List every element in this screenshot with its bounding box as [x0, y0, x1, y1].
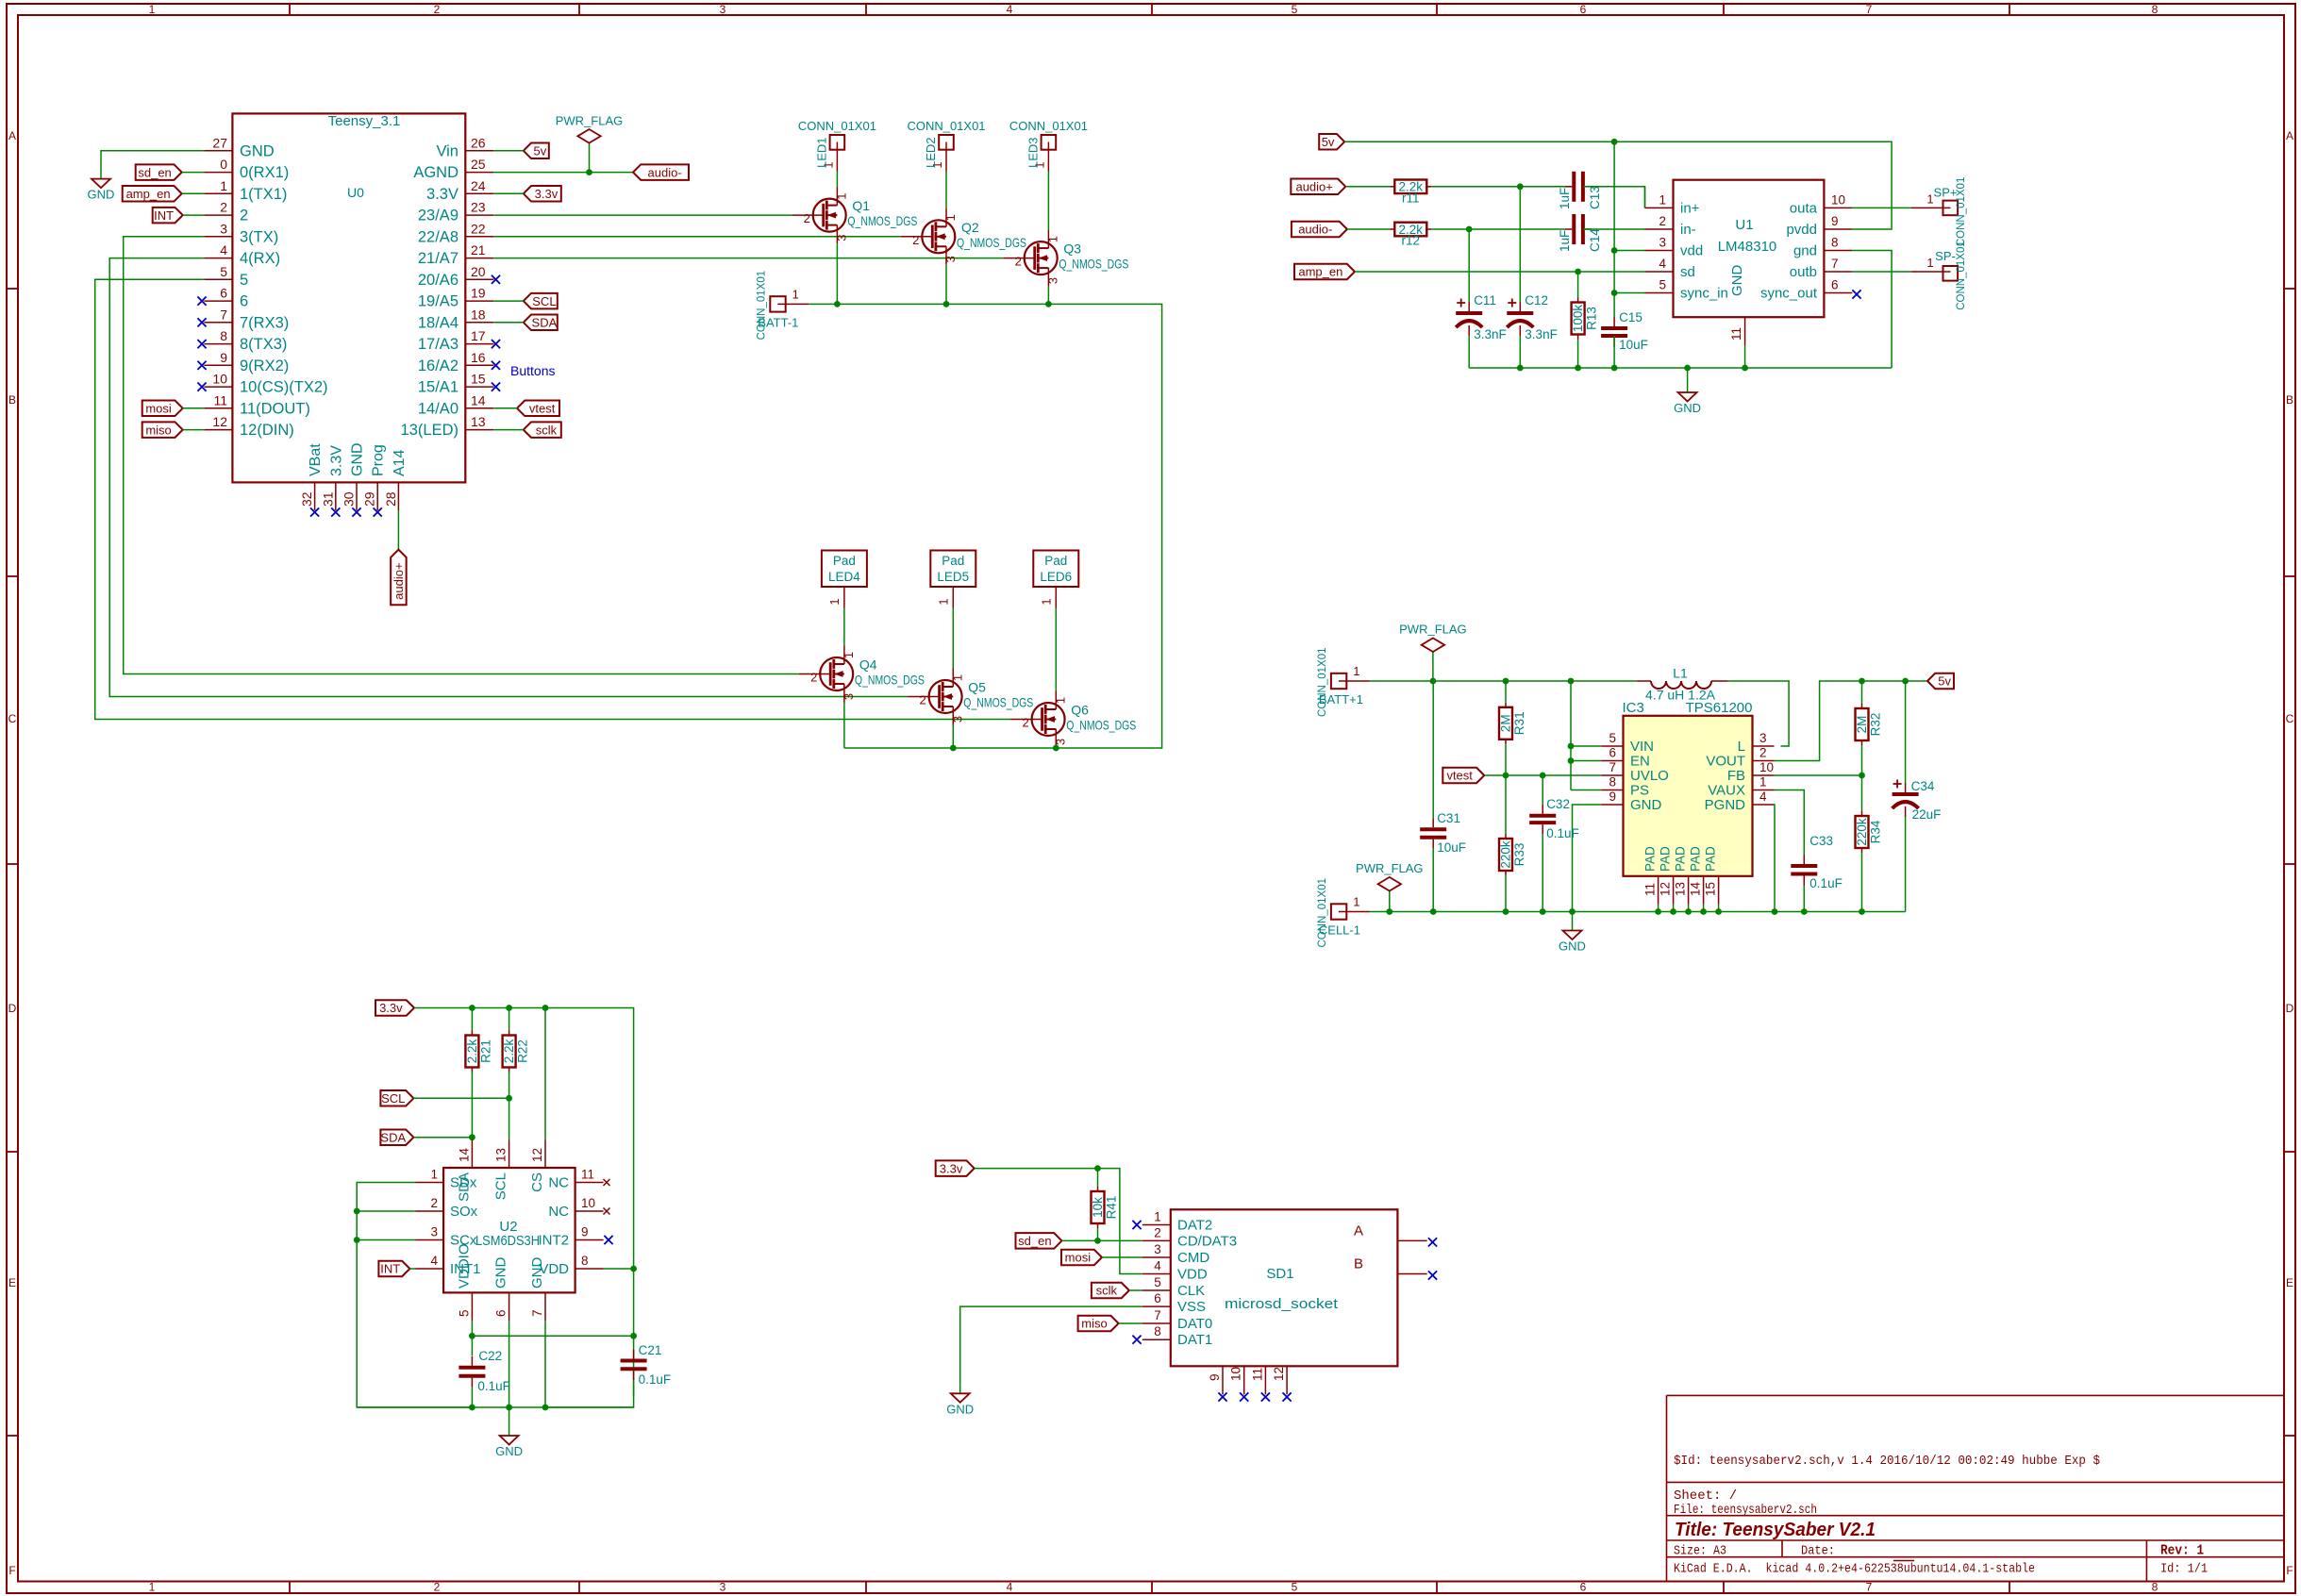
svg-text:audio+: audio+ — [1295, 179, 1332, 193]
svg-text:2: 2 — [804, 211, 810, 225]
svg-text:3: 3 — [430, 1225, 438, 1239]
wire GND from U0 pin 27 — [101, 151, 204, 179]
global label sclk (sd) — [1092, 1283, 1129, 1299]
svg-text:C33: C33 — [1809, 834, 1833, 848]
wire miso to U0 pin 12 — [183, 429, 205, 431]
svg-text:GND: GND — [529, 1257, 545, 1289]
wire U2 pin 3 — [357, 1239, 415, 1241]
svg-text:SOx: SOx — [450, 1204, 478, 1220]
svg-text:LM48310: LM48310 — [1718, 239, 1777, 255]
capacitor C12 3.3nF (polarized) — [1507, 293, 1558, 341]
junction R32 top — [1859, 678, 1865, 685]
svg-text:13: 13 — [471, 414, 486, 429]
svg-text:TPS61200: TPS61200 — [1686, 700, 1753, 716]
global label SCL (imu) — [380, 1090, 413, 1106]
svg-text:R41: R41 — [1105, 1196, 1119, 1220]
svg-text:5: 5 — [220, 264, 227, 279]
wire Q5 source to lower bus — [952, 725, 954, 749]
svg-text:2: 2 — [1659, 214, 1666, 228]
svg-text:8: 8 — [1831, 236, 1839, 250]
ground symbol GND — [1674, 368, 1701, 415]
wire audio- to r12 — [1347, 228, 1391, 230]
connector LED4 (Pad) — [822, 551, 867, 608]
capacitor C34 22uF (polarized) — [1892, 779, 1942, 822]
svg-text:5: 5 — [1292, 3, 1298, 16]
svg-text:12: 12 — [1659, 882, 1673, 896]
transistor Q6 Q_NMOS_DGS — [1010, 691, 1136, 748]
wire U2 pins 1-3 tie-down vertical — [357, 1183, 472, 1408]
svg-text:2: 2 — [434, 3, 441, 16]
svg-text:26: 26 — [471, 135, 486, 150]
svg-text:DAT1: DAT1 — [1177, 1332, 1212, 1348]
svg-text:25: 25 — [471, 157, 486, 172]
wire C34 to bus — [1905, 817, 1907, 912]
svg-text:Q_NMOS_DGS: Q_NMOS_DGS — [855, 673, 925, 688]
wire R13 to gnd bus — [1577, 340, 1579, 369]
svg-text:R21: R21 — [478, 1039, 492, 1063]
svg-text:sd: sd — [1680, 264, 1695, 280]
svg-text:3.3v: 3.3v — [940, 1161, 963, 1175]
svg-text:Pad: Pad — [942, 554, 964, 568]
svg-text:2: 2 — [240, 208, 248, 224]
svg-text:R13: R13 — [1585, 307, 1599, 330]
svg-text:2M: 2M — [1855, 716, 1869, 734]
svg-text:vtest: vtest — [529, 401, 556, 415]
svg-text:Size: A3: Size: A3 — [1674, 1544, 1726, 1559]
svg-text:GND: GND — [946, 1402, 974, 1416]
junction imu gnd bus — [506, 1405, 512, 1411]
power flag PWR_FLAG — [1356, 861, 1424, 911]
global label 5v — [524, 143, 549, 159]
svg-text:INT: INT — [154, 208, 174, 223]
svg-text:Q5: Q5 — [968, 680, 986, 695]
svg-text:12: 12 — [212, 414, 227, 429]
svg-text:1: 1 — [827, 598, 842, 605]
svg-text:sync_in: sync_in — [1680, 286, 1728, 302]
capacitor C22 0.1uF — [459, 1349, 510, 1393]
title block — [1667, 1395, 2285, 1581]
svg-text:C14: C14 — [1588, 228, 1602, 252]
svg-text:3.3v: 3.3v — [379, 1001, 403, 1015]
svg-text:SDA: SDA — [456, 1172, 472, 1202]
svg-text:SDA: SDA — [380, 1130, 406, 1144]
svg-text:3: 3 — [220, 221, 227, 236]
transistor Q1 Q_NMOS_DGS — [792, 187, 917, 243]
svg-text:8: 8 — [2152, 3, 2159, 16]
wire 5v down to C34 — [1905, 681, 1907, 783]
wire R34 to bus — [1861, 853, 1863, 912]
svg-text:20/A6: 20/A6 — [418, 272, 459, 289]
global label sclk — [524, 422, 561, 438]
wire U0 pin 19 to SCL — [493, 300, 524, 302]
resistor R31 2M — [1499, 703, 1527, 744]
svg-text:220k: 220k — [1499, 840, 1513, 869]
wire sync_in pin 5 — [1614, 292, 1644, 294]
svg-text:A: A — [2286, 129, 2293, 142]
svg-text:100k: 100k — [1571, 305, 1585, 333]
svg-text:0.1uF: 0.1uF — [1809, 876, 1842, 890]
svg-text:3: 3 — [1659, 236, 1666, 250]
svg-text:16: 16 — [471, 350, 486, 365]
svg-text:File: teensysaberv2.sch: File: teensysaberv2.sch — [1674, 1503, 1817, 1518]
svg-text:20: 20 — [471, 264, 486, 279]
wire sclk to CLK pin 5 — [1129, 1289, 1142, 1291]
svg-text:pvdd: pvdd — [1786, 222, 1817, 238]
wire U0 pin 4 to Q5 gate — [109, 258, 908, 697]
svg-text:B: B — [2286, 393, 2293, 407]
svg-text:0.1uF: 0.1uF — [639, 1372, 672, 1387]
svg-text:PWR_FLAG: PWR_FLAG — [1356, 861, 1424, 875]
svg-text:Rev: 1: Rev: 1 — [2160, 1544, 2204, 1559]
wire VIN/EN vertical — [1570, 681, 1572, 790]
svg-text:vdd: vdd — [1680, 243, 1703, 259]
wire U0 pin 28/A14 to audio+ — [397, 510, 399, 550]
junction Q3 source — [1045, 301, 1052, 308]
svg-text:LED5: LED5 — [937, 570, 969, 584]
svg-text:Q_NMOS_DGS: Q_NMOS_DGS — [957, 235, 1026, 250]
resistor R41 10k — [1091, 1187, 1119, 1228]
svg-text:amp_en: amp_en — [126, 187, 171, 201]
svg-text:LSM6DS3H: LSM6DS3H — [475, 1233, 540, 1249]
svg-text:18: 18 — [471, 307, 486, 322]
wire LED1 to Q1 drain — [836, 172, 838, 188]
svg-text:31: 31 — [320, 491, 335, 507]
junction Q2 source — [943, 301, 950, 308]
junction sd_en/R41 — [1094, 1238, 1101, 1244]
junction vdd — [1611, 247, 1618, 254]
svg-text:LED4: LED4 — [828, 570, 860, 584]
svg-text:3: 3 — [720, 3, 726, 16]
junction vtest/C32 — [1540, 773, 1546, 779]
global label audio- (amp) — [1292, 222, 1347, 238]
svg-text:3.3v: 3.3v — [535, 187, 559, 201]
svg-text:7: 7 — [1154, 1308, 1161, 1322]
inductor L1 4.7 uH 1.2A — [1637, 666, 1728, 703]
svg-text:C15: C15 — [1619, 310, 1642, 324]
svg-text:GND: GND — [88, 188, 115, 202]
svg-text:IC3: IC3 — [1623, 700, 1644, 716]
svg-text:B: B — [8, 393, 16, 407]
svg-text:C13: C13 — [1588, 186, 1602, 209]
resistor r11 2.2k — [1390, 180, 1431, 206]
wire C13 to in+ pin 1 — [1583, 187, 1645, 208]
svg-text:12(DIN): 12(DIN) — [240, 422, 294, 439]
svg-text:3.3V: 3.3V — [426, 186, 459, 203]
wire R33 to bottom bus — [1505, 875, 1507, 912]
resistor R32 2M — [1855, 704, 1883, 745]
svg-text:NC: NC — [548, 1175, 569, 1191]
svg-text:3(TX): 3(TX) — [240, 228, 278, 245]
wire U2 pin 2 — [357, 1210, 415, 1212]
svg-text:r12: r12 — [1402, 234, 1421, 248]
wire vtest down to R33 — [1505, 775, 1507, 834]
svg-text:BATT+1: BATT+1 — [1319, 692, 1363, 707]
transistor Q2 Q_NMOS_DGS — [901, 208, 1026, 265]
svg-text:6: 6 — [220, 286, 227, 301]
svg-text:10(CS)(TX2): 10(CS)(TX2) — [240, 379, 328, 396]
svg-text:Teensy_3.1: Teensy_3.1 — [328, 113, 401, 129]
svg-text:2: 2 — [912, 233, 919, 247]
svg-text:4: 4 — [1759, 790, 1767, 804]
svg-text:GND: GND — [1559, 939, 1586, 954]
svg-text:U1: U1 — [1735, 217, 1753, 233]
svg-text:LED6: LED6 — [1040, 570, 1072, 584]
wire BATT- bus (Q1/Q2/Q3 sources) — [809, 304, 1161, 748]
svg-text:outb: outb — [1790, 264, 1817, 280]
wire C33 to bus — [1803, 886, 1805, 912]
wire INT to U0 pin 2 — [183, 214, 205, 216]
junction 3.3v/CS — [542, 1005, 549, 1011]
svg-text:CS: CS — [529, 1172, 545, 1192]
junction bottom bus — [1540, 908, 1546, 915]
wire R32 top — [1861, 681, 1863, 704]
svg-text:Q4: Q4 — [859, 657, 877, 673]
wire U0 pin 13 to sclk — [493, 429, 524, 431]
svg-text:1: 1 — [1039, 598, 1053, 605]
svg-text:21/A7: 21/A7 — [418, 250, 459, 267]
svg-text:15/A1: 15/A1 — [418, 379, 459, 396]
svg-text:11: 11 — [213, 392, 227, 407]
svg-text:1: 1 — [1759, 775, 1767, 790]
wire U2 pin 8 VDD to 3.3v vertical — [604, 1268, 634, 1270]
svg-text:Sheet: /: Sheet: / — [1674, 1488, 1737, 1504]
no-connect U1 sync_out pin 6 — [1852, 290, 1860, 298]
svg-text:sclk: sclk — [1096, 1284, 1118, 1298]
ground symbol GND — [1559, 912, 1586, 954]
svg-text:8: 8 — [1154, 1324, 1161, 1338]
wire 3.3v rail — [414, 1008, 634, 1270]
wire U0 3.3V to 3.3v label — [493, 192, 524, 194]
svg-text:r11: r11 — [1402, 191, 1420, 205]
svg-text:2: 2 — [434, 1581, 441, 1594]
wire 3.3v to VDD net — [975, 1169, 1142, 1274]
junction bottom bus — [1859, 908, 1865, 915]
svg-text:1: 1 — [220, 178, 227, 193]
svg-text:5: 5 — [1609, 731, 1616, 745]
ground symbol GND — [495, 1407, 523, 1458]
junction 3.3v/R21 — [469, 1005, 475, 1011]
svg-text:Title: TeensySaber V2.1: Title: TeensySaber V2.1 — [1675, 1520, 1876, 1540]
svg-text:2: 2 — [1015, 255, 1022, 269]
svg-text:2: 2 — [919, 693, 925, 707]
connector SP+ CONN_01X01 — [1911, 177, 1967, 247]
wire R22 to SCL junction and pin 13 — [509, 1072, 510, 1140]
global label miso — [142, 422, 183, 438]
capacitor C33 0.1uF — [1791, 834, 1842, 890]
connector SP- CONN_01X01 — [1911, 241, 1967, 310]
wire VAUX pin 1 to C33 — [1775, 790, 1805, 856]
wire C31 to bottom bus — [1432, 849, 1434, 912]
svg-text:4: 4 — [1659, 257, 1666, 271]
svg-text:miso: miso — [1081, 1317, 1107, 1331]
svg-text:CONN_01X01: CONN_01X01 — [1956, 177, 1967, 247]
global label mosi — [142, 401, 183, 417]
svg-text:VDD: VDD — [1177, 1267, 1208, 1283]
svg-text:Vin: Vin — [436, 142, 459, 159]
wire R41 to sd_en net — [1097, 1228, 1099, 1240]
junction audio+ / C12 — [1517, 183, 1524, 190]
global label amp_en (amp) — [1294, 264, 1355, 280]
wire R31 bottom to vtest — [1505, 744, 1507, 775]
svg-text:R32: R32 — [1869, 713, 1883, 737]
capacitor C13 1uF — [1558, 172, 1602, 209]
svg-text:vtest: vtest — [1446, 769, 1473, 783]
wire amp_en to sd pin 4 — [1355, 271, 1645, 273]
svg-text:1: 1 — [430, 1168, 438, 1182]
svg-text:Q_NMOS_DGS: Q_NMOS_DGS — [1066, 718, 1136, 733]
svg-text:24: 24 — [471, 178, 486, 193]
svg-text:9(RX2): 9(RX2) — [240, 357, 289, 374]
svg-text:SCL: SCL — [532, 294, 556, 308]
svg-text:C: C — [2286, 712, 2294, 725]
svg-text:2: 2 — [1154, 1225, 1161, 1239]
svg-text:22: 22 — [471, 221, 486, 236]
wire U0 AGND to audio- — [493, 172, 633, 174]
wire SCL to R22 net — [413, 1097, 509, 1099]
svg-text:3: 3 — [1053, 739, 1067, 745]
svg-text:B: B — [1354, 1256, 1363, 1272]
svg-text:1(TX1): 1(TX1) — [240, 186, 287, 203]
connector LED5 (Pad) — [930, 551, 975, 608]
wire GND pin 9 down to bus and GND symbol — [1573, 805, 1602, 912]
wire U0 pin 5 to Q6 gate — [95, 279, 1010, 719]
svg-text:audio+: audio+ — [392, 562, 406, 599]
svg-text:SP+: SP+ — [1934, 185, 1958, 199]
svg-text:VDDIO: VDDIO — [456, 1243, 472, 1288]
svg-text:4(RX): 4(RX) — [240, 250, 280, 267]
svg-text:Date:: Date: — [1801, 1544, 1835, 1559]
resistor R22 2.2k — [502, 1031, 530, 1072]
wire audio- junction down to C11 — [1468, 229, 1470, 302]
svg-text:9: 9 — [1208, 1373, 1222, 1381]
svg-text:C31: C31 — [1437, 811, 1460, 825]
svg-text:sd_en: sd_en — [1018, 1234, 1051, 1248]
svg-text:23/A9: 23/A9 — [418, 208, 459, 224]
wire sd junction to R13 — [1577, 272, 1579, 298]
wire VDD vertical down to C21 — [633, 1269, 635, 1397]
svg-text:8: 8 — [1609, 775, 1616, 790]
capacitor C31 10uF — [1420, 811, 1466, 855]
svg-text:in-: in- — [1680, 222, 1696, 238]
svg-text:1: 1 — [943, 214, 958, 221]
junction bottom bus — [1569, 908, 1576, 915]
junction sync_in — [1611, 290, 1618, 296]
svg-text:6: 6 — [1831, 278, 1839, 292]
svg-text:3: 3 — [720, 1581, 726, 1594]
junction amp_en / R13 — [1575, 269, 1581, 275]
svg-text:16/A2: 16/A2 — [418, 357, 459, 374]
wire VDDIO horizontal link — [472, 1335, 633, 1337]
svg-text:KiCad E.D.A. kicad 4.0.2+e4-6: KiCad E.D.A. kicad 4.0.2+e4-622538ubuntu… — [1674, 1562, 2035, 1577]
svg-text:Pad: Pad — [1044, 554, 1067, 568]
wire R31 top — [1505, 681, 1507, 703]
svg-text:F: F — [2286, 1564, 2293, 1577]
svg-text:3: 3 — [842, 693, 856, 700]
svg-text:BATT-1: BATT-1 — [758, 315, 798, 329]
svg-text:11: 11 — [1729, 327, 1743, 341]
resistor R34 220k — [1855, 811, 1883, 853]
resistor R13 100k — [1571, 298, 1599, 340]
no-connect U2 pin 11 — [604, 1179, 610, 1186]
svg-text:CONN_01X01: CONN_01X01 — [907, 119, 985, 133]
svg-text:LED1: LED1 — [814, 137, 828, 168]
svg-text:CONN_01X01: CONN_01X01 — [798, 119, 876, 133]
wire INT to pin 4 — [409, 1268, 415, 1270]
wire sd_en to CD/DAT3 pin 2 — [1062, 1239, 1142, 1241]
wire U0 pin 21 to Q3 gate — [493, 258, 1003, 259]
connector LED3 CONN_01X01 — [1009, 119, 1088, 172]
global label SCL — [524, 293, 558, 309]
wire LED3 to Q3 drain — [1047, 172, 1049, 230]
svg-text:GND: GND — [495, 1444, 523, 1458]
junction gnd bus — [1611, 365, 1618, 372]
junction audio- / C11 — [1466, 226, 1473, 233]
svg-text:gnd: gnd — [1793, 243, 1817, 259]
no-connect SD1 pin A — [1428, 1238, 1437, 1246]
svg-text:3.3V: 3.3V — [328, 445, 344, 476]
global label sd_en (sd) — [1016, 1233, 1062, 1249]
svg-text:4: 4 — [430, 1254, 438, 1268]
junction VDD — [630, 1266, 637, 1272]
svg-text:5v: 5v — [1322, 135, 1335, 149]
svg-text:GND: GND — [1729, 265, 1745, 297]
wire PS pin 8 — [1571, 790, 1601, 791]
wire BATT+ down to C31 — [1432, 681, 1434, 818]
wire IC3 pad pins to bus — [1658, 905, 1659, 912]
svg-text:8(TX3): 8(TX3) — [240, 336, 287, 353]
svg-text:DAT2: DAT2 — [1177, 1218, 1212, 1234]
svg-text:2: 2 — [220, 200, 227, 215]
svg-text:1: 1 — [834, 192, 848, 199]
wire U1 gnd pin 8 to bus — [1852, 251, 1892, 369]
svg-text:C: C — [8, 712, 17, 725]
svg-text:INT: INT — [380, 1262, 400, 1276]
wire U1 outb pin 7 to SP- — [1852, 271, 1911, 273]
wire mosi to U0 pin 11 — [183, 407, 205, 409]
wire sd_en to U0 pin 0 — [182, 172, 205, 174]
svg-text:17/A3: 17/A3 — [418, 336, 459, 353]
wire r12 to C14 and in- pin 2 — [1431, 228, 1565, 230]
svg-text:C21: C21 — [639, 1343, 662, 1357]
svg-text:VSS: VSS — [1177, 1299, 1206, 1315]
junction gnd bus — [1575, 365, 1581, 372]
svg-text:D: D — [2286, 1002, 2294, 1015]
wire U0 pin 18 to SDA — [493, 322, 524, 324]
svg-text:2: 2 — [810, 671, 817, 685]
junction AGND/PWR_FLAG — [586, 169, 592, 175]
wire LED4 pad to Q4 drain — [843, 608, 845, 646]
global label INT — [153, 208, 183, 224]
svg-text:7: 7 — [220, 307, 227, 322]
amplifier U1 LM48310 — [1645, 180, 1853, 345]
wire GND pin 6 down to bus — [509, 1321, 510, 1407]
svg-text:10: 10 — [212, 372, 227, 387]
svg-text:8: 8 — [220, 328, 227, 343]
junction VDDIO/C22 — [469, 1333, 475, 1339]
svg-text:0: 0 — [220, 157, 227, 172]
svg-text:30: 30 — [342, 491, 357, 507]
IMU U2 LSM6DS3H — [415, 1140, 603, 1322]
svg-text:3.3nF: 3.3nF — [1525, 327, 1558, 341]
wire U1 outa pin 10 to SP+ — [1852, 207, 1911, 208]
capacitor C14 1uF — [1558, 214, 1602, 252]
wire FB pin 10 to divider — [1775, 774, 1862, 776]
svg-text:R31: R31 — [1512, 711, 1526, 735]
svg-text:3.3nF: 3.3nF — [1474, 327, 1507, 341]
junction bottom bus — [1801, 908, 1808, 915]
junction VIN/EN vertical top — [1568, 678, 1575, 685]
svg-text:SCL: SCL — [381, 1091, 405, 1106]
